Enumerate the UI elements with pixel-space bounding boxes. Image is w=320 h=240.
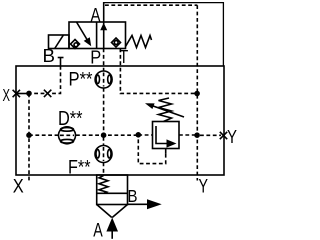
svg-text:A: A xyxy=(91,6,101,27)
svg-text:X: X xyxy=(13,177,24,198)
line X entry xyxy=(16,93,29,95)
port A connection to housing xyxy=(104,3,224,66)
pilot line B xyxy=(51,66,61,93)
valve left position flow path xyxy=(77,22,92,46)
main poppet cartridge xyxy=(97,175,128,205)
line to port Y right xyxy=(200,134,221,136)
svg-text:P**: P** xyxy=(69,68,93,90)
solenoid xyxy=(49,35,70,49)
port A line xyxy=(103,2,105,22)
housing outline xyxy=(16,66,224,175)
junction X/D xyxy=(26,132,32,138)
plug Y xyxy=(220,132,227,139)
valve left seat xyxy=(71,40,80,49)
plug X2 xyxy=(44,90,51,97)
pilot line F xyxy=(103,137,105,146)
valve V1 body xyxy=(69,22,126,49)
valve spring xyxy=(126,36,152,48)
pilot line X vertical xyxy=(28,93,30,180)
junction D/RV xyxy=(136,132,142,138)
junction P/D xyxy=(101,132,107,138)
plug X1 xyxy=(13,90,20,97)
valve right position flow path xyxy=(100,22,107,49)
drain line Y vertical xyxy=(196,5,198,180)
svg-text:F**: F** xyxy=(68,157,91,178)
main poppet seat xyxy=(97,205,128,218)
pilot line P lower xyxy=(103,88,105,135)
relief valve DB xyxy=(153,122,180,149)
pilot line P xyxy=(103,49,105,72)
port B blocked xyxy=(58,58,64,67)
junction X xyxy=(26,91,32,97)
pilot line D left xyxy=(29,134,58,136)
junction T/Y xyxy=(194,91,200,97)
svg-text:B: B xyxy=(128,186,138,206)
svg-text:X: X xyxy=(3,85,11,105)
line X xyxy=(32,92,45,94)
port B line xyxy=(128,203,149,205)
valve right seat xyxy=(112,38,121,47)
drain line Y top xyxy=(105,4,197,6)
port A arrow xyxy=(106,218,118,239)
relief valve spring xyxy=(159,98,172,122)
pilot line D right xyxy=(179,134,197,136)
port B arrow xyxy=(147,199,162,209)
orifice D** xyxy=(59,127,76,144)
svg-text:B: B xyxy=(43,45,56,66)
svg-text:Y: Y xyxy=(199,177,209,198)
svg-text:A: A xyxy=(93,221,103,240)
junction D/Y xyxy=(194,132,200,138)
pilot line F lower xyxy=(103,163,105,176)
pilot line D mid xyxy=(76,134,138,136)
tank line T xyxy=(120,49,197,94)
svg-text:Y: Y xyxy=(227,127,237,147)
svg-text:D**: D** xyxy=(58,108,83,130)
main poppet spring xyxy=(99,176,108,194)
relief valve outlet xyxy=(165,149,167,154)
orifice F** xyxy=(95,146,112,163)
pilot line to relief valve xyxy=(138,134,152,136)
orifice P** xyxy=(95,71,112,88)
svg-text:P: P xyxy=(90,48,101,68)
relief valve adjust arrow xyxy=(145,103,184,117)
